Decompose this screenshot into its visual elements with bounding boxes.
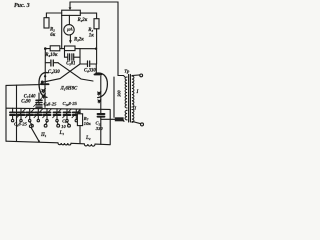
svg-text:μА: μА <box>66 27 73 32</box>
node row right junction <box>95 48 97 50</box>
svg-text:R2: R2 <box>50 28 55 33</box>
cathode arrow right triode <box>98 92 101 95</box>
capacitor C4 <box>51 60 53 66</box>
cathode wire right triode <box>100 76 102 113</box>
padder capacitor C5 <box>38 103 40 104</box>
trimmer capacitor bank unit 4 <box>34 109 43 122</box>
svg-text:6к: 6к <box>50 33 55 38</box>
svg-text:330: 330 <box>95 126 104 131</box>
tube envelope right triode <box>96 73 108 98</box>
svg-text:L2: L2 <box>85 136 91 141</box>
potentiometer R4 wiper arrow <box>69 2 71 8</box>
capacitor C11 <box>98 114 105 117</box>
node junction dot <box>44 47 47 50</box>
capacitor C6 <box>88 61 90 67</box>
svg-text:L1: L1 <box>59 131 65 136</box>
wire pot right to R3 <box>80 13 96 19</box>
potentiometer R4 <box>62 10 81 15</box>
trimmer capacitor bank unit 8 <box>72 109 81 122</box>
wire anode lead right triode <box>95 64 97 73</box>
wire bottom bus mid <box>71 142 84 145</box>
svg-text:Л16Н8С: Л16Н8С <box>60 87 79 92</box>
tube envelope left triode <box>39 73 48 98</box>
terminal t3 <box>141 123 144 126</box>
trimmer capacitor bank unit 1 <box>10 108 15 122</box>
wire primary left lead <box>113 77 115 117</box>
svg-text:С108-25: С108-25 <box>63 101 78 107</box>
trimmer capacitor bank unit 2 <box>17 108 26 121</box>
transformer primary winding lower <box>125 110 127 120</box>
wire R7 top stub <box>79 109 81 114</box>
resistor R2 <box>44 18 49 28</box>
node anode lead junction <box>44 75 46 77</box>
trimmer capacitor bank unit 6 <box>53 109 62 122</box>
svg-text:R610к: R610к <box>45 53 58 58</box>
wire diagonal D2 to left triode grid <box>43 64 80 82</box>
wire secondary top to t2 <box>132 74 140 77</box>
switch contact 2 <box>44 122 47 127</box>
svg-text:300: 300 <box>117 90 122 98</box>
wire antenna left vertical <box>5 85 7 141</box>
paper background <box>0 0 150 150</box>
connector bar <box>115 117 124 121</box>
coil L2 <box>84 144 95 146</box>
wire secondary bottom to t3 <box>132 121 141 123</box>
cathode wire left triode <box>44 85 46 107</box>
svg-text:I: I <box>136 90 139 95</box>
wire bottom bus right <box>95 143 110 146</box>
wire to transformer bar <box>101 118 115 120</box>
padder capacitor C7 <box>38 93 40 100</box>
wire tuning bus <box>7 108 111 109</box>
svg-text:10к: 10к <box>84 121 92 126</box>
wire C6 right lead <box>91 63 96 65</box>
wire top feed to primary <box>118 76 125 78</box>
svg-text:R52к: R52к <box>74 38 84 43</box>
capacitor C5a plates <box>68 54 70 60</box>
trimmer capacitor bank unit 5 <box>43 109 52 122</box>
svg-text:С590: С590 <box>21 99 31 104</box>
wire C4 right lead <box>54 62 58 64</box>
trimmer capacitor bank unit 7 <box>63 109 72 122</box>
transformer secondary winding upper <box>132 76 134 107</box>
svg-text:С4330: С4330 <box>48 70 60 75</box>
terminal t2 <box>140 74 143 77</box>
wire left vertical <box>16 85 18 141</box>
wire bottom ground bus <box>6 141 58 143</box>
svg-text:Рис. 3: Рис. 3 <box>14 3 30 9</box>
resistor R3 <box>94 19 99 29</box>
wire top bus <box>70 2 118 76</box>
resistor R6 <box>50 46 60 51</box>
wire primary bottom to bar <box>123 120 124 122</box>
svg-text:П1: П1 <box>40 133 47 138</box>
wire middle row <box>45 48 96 50</box>
svg-text:С6330: С6330 <box>84 69 96 74</box>
switch contact 1 <box>30 122 34 127</box>
svg-text:Тр: Тр <box>124 68 130 73</box>
wire C4 left lead <box>45 62 50 64</box>
svg-text:1к: 1к <box>89 33 94 38</box>
anode bar left triode <box>42 83 49 85</box>
switch П1 lever <box>31 127 39 141</box>
coil L1 <box>58 143 71 145</box>
switch contact 3 <box>57 122 60 127</box>
wire grid bus left <box>6 83 42 86</box>
wire left triode anode lead <box>44 49 46 83</box>
wire pot left to R2 <box>46 13 61 18</box>
transformer core <box>129 75 131 123</box>
svg-text:R3: R3 <box>88 28 93 33</box>
svg-text:С88-25: С88-25 <box>44 101 58 107</box>
switch contact 4 <box>67 122 70 127</box>
capacitor C5b plates <box>72 54 74 60</box>
cathode chevrons left triode <box>42 89 46 93</box>
wire C11 down <box>100 117 102 144</box>
wire right column down <box>109 110 111 145</box>
transformer primary winding upper <box>125 77 127 108</box>
resistor R7 <box>77 114 82 126</box>
wire R7 bottom stub <box>79 126 81 144</box>
svg-text:С581: С581 <box>66 62 75 67</box>
svg-text:С68-25: С68-25 <box>14 122 28 128</box>
grid cap dot left triode <box>41 81 44 84</box>
wire meter bypass branch <box>61 15 63 48</box>
wire meter top stub <box>68 15 70 24</box>
potentiometer R5 <box>65 46 76 51</box>
svg-text:II: II <box>132 106 137 111</box>
transformer secondary winding lower <box>132 110 134 123</box>
meter uA <box>64 25 74 35</box>
anode bar right triode <box>95 73 102 75</box>
wire meter bottom arrow to R5 <box>69 35 71 41</box>
svg-text:R42к: R42к <box>78 18 88 23</box>
trimmer capacitor bank unit 3 <box>25 109 34 122</box>
wire RC loop under R5 <box>65 51 68 58</box>
wire C6 left lead <box>80 63 87 65</box>
wire R3 down <box>96 29 98 64</box>
wire diagonal D1 to right triode <box>58 63 93 81</box>
wire R5 junction down <box>79 49 81 64</box>
